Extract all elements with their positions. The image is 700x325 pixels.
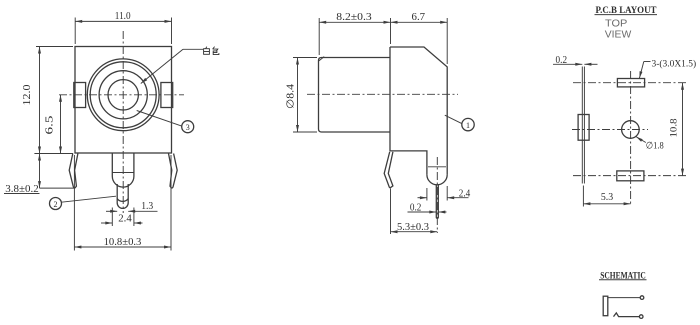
side view pin tick [428,166,446,168]
PCB centerline top slot [573,82,686,84]
svg-text:5.3: 5.3 [601,192,613,203]
svg-text:2.4: 2.4 [118,214,132,225]
PCB center hole [622,121,640,139]
svg-text:6.7: 6.7 [412,12,426,23]
dim 10.8 pcb text [670,118,680,137]
dim 8.2±0.3 text [336,12,372,23]
dim dia8.4 text [286,84,297,109]
dim 0.2 pcb text [556,55,568,66]
jack face inner circle [108,80,138,110]
side dim 2.4 text [459,188,471,199]
center pin front: inner bottom arc [117,199,128,202]
side dim 2.4 arrows [418,196,469,199]
svg-text:12.0: 12.0 [22,85,33,106]
dim 2.4 text [118,214,132,225]
balloon 3 leader [137,111,182,127]
dim 6.5 line [59,95,62,154]
dim 10.8±0.3 line [74,246,171,249]
dim 1.3 text [141,201,153,212]
side view pin U arc [427,175,447,185]
balloon 2 leader [61,196,116,202]
svg-text:3-(3.0X1.5): 3-(3.0X1.5) [652,58,697,69]
schematic sleeve bar [603,296,608,316]
top dims extension lines [319,18,447,64]
dim 5.3 extension lines [390,189,392,235]
dim 12.0 text [22,85,33,106]
svg-text:11.0: 11.0 [115,11,131,22]
front view left side tab [74,83,86,108]
PCB bottom slot [617,171,644,181]
dia8.4 extension lines [293,58,317,133]
jack face middle circle [99,71,147,119]
PCB vertical centerline [630,71,632,204]
dim 3.8±0.2 text [5,184,38,195]
dim 11.0 line [75,20,171,23]
svg-text:10.8±0.3: 10.8±0.3 [104,237,142,248]
PCB top slot [617,79,644,87]
side view pin thin tail [436,185,438,219]
dim 1.3 arrows [106,210,158,213]
center pin front: outer tube walls and U [112,153,134,187]
label baise (white) characters [204,47,219,55]
TOP text [605,18,627,30]
front view right side tab [161,83,173,108]
dim 12.0/3.8 shared extension bottom [34,153,73,155]
front view right snap leg [169,154,178,188]
balloon 1 [462,118,474,130]
side view horizontal centerline [307,93,458,95]
pin extension lines below [112,208,134,227]
PCB centerline bottom slot [573,175,686,177]
schematic title underline [599,279,647,281]
dim 3.8±0.2 underline [4,193,40,195]
jack face outer circle [87,59,159,131]
svg-text:∅1.8: ∅1.8 [646,141,664,152]
dim 5.3±0.3 text [397,222,429,233]
dim 12.0 line [38,47,41,154]
dim 10.8 pcb line [681,83,684,176]
svg-text:∅8.4: ∅8.4 [286,84,297,109]
dim 12.0 extension top [36,46,73,48]
dim 5.3 pcb line [583,202,630,205]
schematic switch terminal [639,315,643,319]
PCB thin slit lines [582,67,584,184]
jack face second ring [90,62,156,128]
label 3-(3.0X1.5) leader [639,62,650,79]
svg-text:5.3±0.3: 5.3±0.3 [397,222,429,233]
dim 2.4 arrows [101,222,143,225]
schematic tip wire [608,297,640,299]
dim 6.5 text [45,116,56,135]
PCB title underline [595,14,658,16]
svg-text:VIEW: VIEW [605,28,632,40]
center pin front: tick line [112,172,134,174]
front view left snap leg [69,154,78,188]
label baise leader [141,49,203,83]
svg-text:10.8: 10.8 [670,118,680,137]
front view body outline [75,47,172,154]
dim dia8.4 line [296,58,299,133]
label dia1.8 text [646,141,664,152]
dim 6.7 text [412,12,426,23]
svg-text:1: 1 [466,121,470,130]
balloon 2 [50,198,62,210]
balloon 1 leader [445,115,462,123]
schematic tip terminal [640,296,644,300]
front view vertical centerline [122,31,124,213]
label dia1.8 leader [636,137,646,143]
side view snap leg [384,152,393,188]
side view barrel [319,58,391,133]
dim 5.3±0.3 line [391,230,438,233]
label 3-(3.0X1.5) text [652,58,697,69]
dim 11.0 text [115,11,131,22]
svg-text:2: 2 [54,200,58,209]
dim 0.2 pcb shelf and arrows [553,63,598,66]
front view horizontal centerline [59,94,184,96]
PCB left slot [578,115,589,141]
center pin front: inner tube [117,184,128,208]
dim 10.8±0.3 text [104,237,142,248]
dim 0.2 text [410,203,422,214]
dim 5.3 pcb extension [582,186,584,207]
side pin extension lines [427,186,447,201]
dim 8.2 / 6.7 line [319,21,447,24]
barrel corner spur [319,57,324,61]
VIEW text [605,28,632,40]
svg-text:8.2±0.3: 8.2±0.3 [336,12,372,23]
side view pin centerline [436,157,438,233]
dim 5.3 pcb text [601,192,613,203]
side view body outline [390,47,447,175]
dim 3.8±0.2 leader to leg tip [40,187,75,189]
PCB centerline middle [572,129,648,131]
svg-text:3: 3 [186,123,190,132]
dim 3.8±0.2 line [38,154,41,189]
balloon 3 [182,121,194,133]
dim 10.8±0.3 extension lines [74,155,171,251]
dim 0.2 arrows [408,211,447,214]
dim 11.0 extension lines [75,18,171,45]
svg-text:1.3: 1.3 [141,201,153,212]
schematic switch contact wire [614,313,640,317]
PCB title [596,6,658,16]
schematic title [600,271,646,281]
svg-text:6.5: 6.5 [45,116,56,135]
